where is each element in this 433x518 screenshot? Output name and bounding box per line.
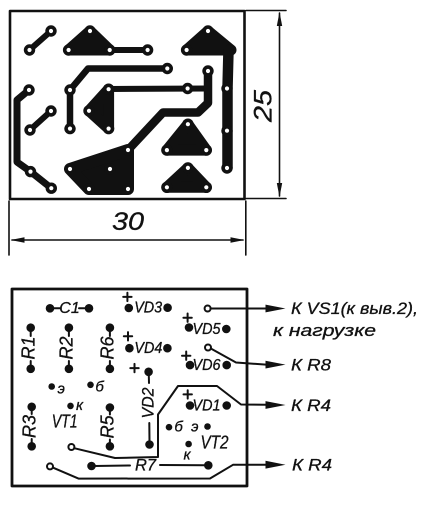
svg-text:R6: R6 bbox=[98, 336, 118, 360]
svg-text:R3: R3 bbox=[20, 415, 40, 438]
svg-text:э: э bbox=[191, 419, 198, 436]
svg-text:к: к bbox=[183, 447, 191, 464]
wire bottom to K R4 (lower) bbox=[47, 461, 286, 479]
pad holes bbox=[27, 29, 229, 191]
trace triangle D (filled) bbox=[167, 168, 206, 187]
wire long trace with bend bbox=[70, 69, 167, 129]
svg-text:VT2: VT2 bbox=[201, 432, 230, 453]
pads with holes bbox=[23, 25, 232, 194]
wire trace right vertical from blob bbox=[228, 50, 229, 168]
trace triangle A (filled) bbox=[69, 31, 110, 50]
capacitor C1 bbox=[47, 300, 93, 317]
wire diagonal pad pair mid-left bbox=[30, 111, 51, 130]
diode VD5 bbox=[183, 314, 229, 338]
svg-text:VD3: VD3 bbox=[134, 300, 162, 317]
svg-text:25: 25 bbox=[250, 90, 278, 123]
diode VD3 bbox=[123, 293, 171, 317]
PCB board outline (trace side) bbox=[10, 11, 245, 199]
svg-text:R5: R5 bbox=[98, 414, 118, 438]
wire left vertical trace bbox=[17, 90, 51, 188]
wire trace from pad down with bends to blob bbox=[128, 71, 208, 150]
dimension 30 line with arrowheads bbox=[12, 239, 243, 241]
svg-text:к нагрузке: к нагрузке bbox=[273, 321, 376, 340]
svg-text:VT1: VT1 bbox=[52, 412, 78, 432]
svg-text:30: 30 bbox=[112, 208, 144, 236]
wire trace A to pad bbox=[110, 47, 148, 53]
svg-text:VD2: VD2 bbox=[140, 388, 158, 419]
svg-text:б: б bbox=[95, 379, 104, 396]
svg-text:C1: C1 bbox=[59, 300, 79, 317]
svg-text:VD6: VD6 bbox=[193, 357, 221, 374]
svg-text:R7: R7 bbox=[135, 456, 157, 474]
resistor R2 bbox=[57, 324, 77, 372]
resistor R6 bbox=[98, 324, 118, 372]
resistor R3 bbox=[20, 404, 40, 450]
svg-text:К R4: К R4 bbox=[291, 396, 331, 415]
node emitter VT2 bbox=[191, 419, 211, 436]
node base VT1 bbox=[87, 379, 104, 396]
wire VT1 collector to K R4 (upper) bbox=[68, 386, 285, 458]
svg-text:R1: R1 bbox=[19, 336, 39, 359]
trace blob upper-right (filled) bbox=[187, 31, 231, 50]
trace triangle B (filled) bbox=[89, 89, 109, 128]
node collector VT2 bbox=[183, 441, 191, 464]
svg-text:R2: R2 bbox=[57, 336, 77, 359]
output pad to R8 with arrow bbox=[205, 345, 286, 369]
wire trace: pad pair upper-left bbox=[30, 31, 52, 50]
svg-text:К R4: К R4 bbox=[292, 456, 332, 475]
wire trace triangle B to pad bbox=[109, 86, 208, 93]
output pad to VS1 with arrow bbox=[205, 305, 286, 313]
resistor R1 bbox=[19, 324, 39, 372]
svg-text:VD4: VD4 bbox=[134, 340, 162, 357]
svg-text:э: э bbox=[58, 381, 65, 398]
component side board outline bbox=[12, 289, 247, 486]
node emitter VT1 bbox=[48, 381, 64, 398]
diode VD4 bbox=[124, 332, 171, 357]
node base VT2 bbox=[166, 419, 184, 436]
trace big blob (filled) bbox=[70, 150, 128, 189]
diode VD6 bbox=[182, 352, 230, 374]
svg-text:К VS1(к выв.2),: К VS1(к выв.2), bbox=[291, 299, 418, 318]
svg-text:б: б bbox=[174, 419, 183, 436]
diode VD2 (vertical) bbox=[130, 364, 157, 448]
dimension 30 extension lines bbox=[9, 201, 246, 255]
resistor R7 bbox=[88, 456, 211, 474]
resistor R5 bbox=[98, 404, 118, 449]
node collector VT1 bbox=[67, 397, 84, 414]
trace triangle C (filled) bbox=[167, 124, 206, 150]
diode VD1 bbox=[184, 390, 231, 414]
svg-text:VD5: VD5 bbox=[193, 321, 221, 338]
dimension 25 line with arrowheads bbox=[279, 13, 281, 196]
svg-text:К R8: К R8 bbox=[291, 356, 332, 375]
svg-text:VD1: VD1 bbox=[193, 397, 221, 414]
dimension 25 extension lines bbox=[246, 11, 286, 199]
